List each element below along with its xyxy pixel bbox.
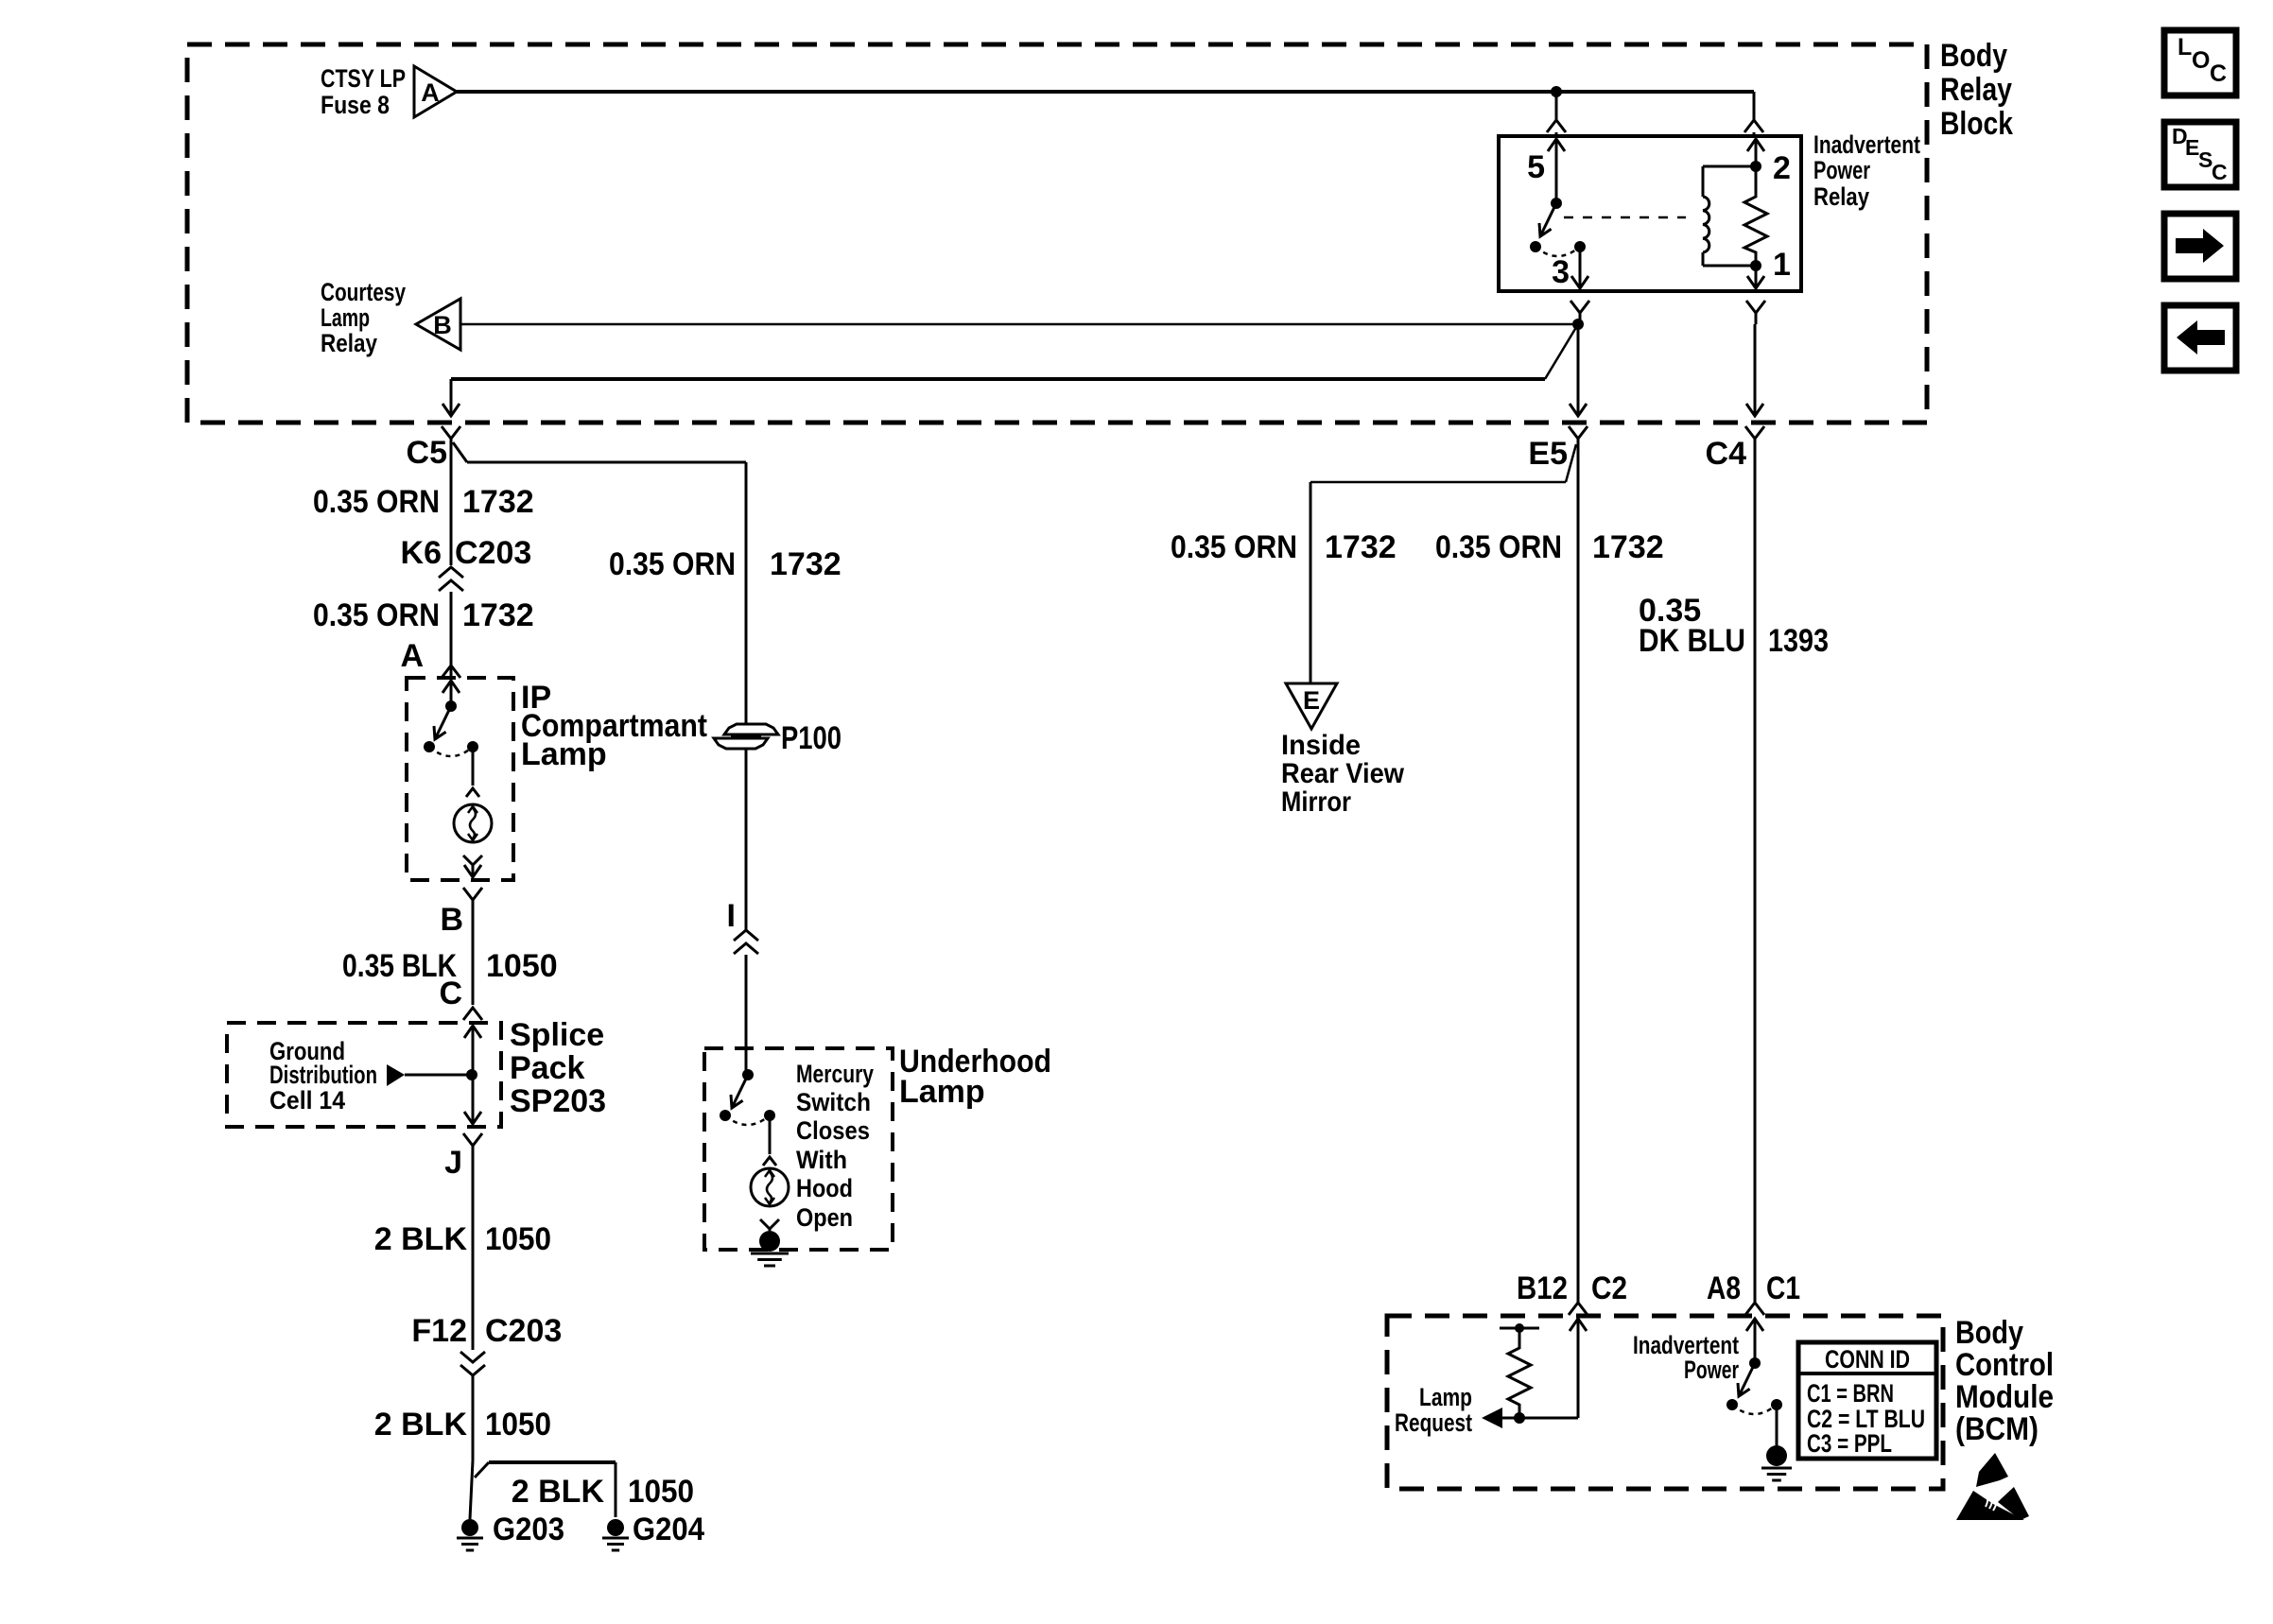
label 0.35 ORN 1732 (underhood) [609, 546, 842, 582]
svg-text:G203: G203 [493, 1512, 564, 1547]
svg-text:1732: 1732 [462, 597, 534, 633]
svg-text:K6: K6 [401, 535, 442, 571]
svg-text:Body: Body [1955, 1315, 2023, 1351]
Body Control Module dashed box [1387, 1316, 1943, 1489]
IP lamp switch throw arc dashed [429, 747, 473, 756]
label Mercury Switch Closes With Hood Open [796, 1060, 874, 1232]
relay pin 3 terminal [1552, 247, 1588, 290]
svg-text:F12: F12 [411, 1313, 467, 1349]
IP Compartment Lamp dashed box [407, 678, 513, 880]
svg-text:Mercury: Mercury [796, 1060, 874, 1088]
svg-text:2 BLK: 2 BLK [374, 1407, 468, 1443]
svg-text:DK BLU: DK BLU [1639, 623, 1745, 659]
junction below relay pin 3 [1572, 319, 1584, 330]
label 0.35 ORN 1732 (C5) [313, 484, 534, 520]
IP lamp bulb lower caret [463, 855, 482, 877]
svg-text:Hood: Hood [796, 1174, 853, 1202]
splice pack exit arrow [464, 1075, 481, 1124]
svg-text:Block: Block [1940, 106, 2013, 142]
IP lamp wire to bulb [466, 747, 479, 797]
svg-text:Open: Open [796, 1203, 853, 1232]
BCM switch contacts [1726, 1399, 1782, 1410]
svg-text:B12: B12 [1517, 1270, 1568, 1306]
svg-text:Lamp: Lamp [521, 736, 607, 772]
label G204 [633, 1512, 704, 1547]
svg-text:Request: Request [1395, 1408, 1472, 1437]
label Lamp Request [1395, 1383, 1472, 1437]
label Body Control Module (BCM) [1955, 1315, 2054, 1447]
svg-text:Control: Control [1955, 1347, 2054, 1383]
underhood switch contacts [720, 1110, 775, 1121]
svg-text:B: B [433, 311, 452, 339]
splice pack entry arrow [464, 1026, 481, 1075]
svg-text:C203: C203 [455, 535, 531, 571]
label Inadvertent Power Relay [1813, 130, 1920, 211]
branch slant at C5 to underhood feed [453, 442, 467, 462]
svg-text:I: I [727, 898, 736, 934]
svg-text:1: 1 [1773, 247, 1791, 283]
wire from fuse A to relay (net CTSY) [457, 90, 1754, 94]
Body Relay Block dashed border [187, 44, 1927, 423]
svg-text:1050: 1050 [485, 1221, 551, 1257]
connector C5 crossing [407, 426, 460, 565]
svg-text:O: O [2192, 47, 2210, 74]
Underhood Lamp dashed box [704, 1048, 893, 1250]
wire junction to pin 5 with caret [1547, 92, 1566, 136]
underhood mercury switch pivot [742, 1069, 754, 1080]
Splice Pack dashed box [227, 1023, 501, 1127]
label 2 BLK 1050 (grounds) [512, 1474, 694, 1510]
wire drop to C5 with arrow [442, 379, 460, 416]
mirror feed wire [1310, 482, 1566, 683]
svg-text:L: L [2178, 34, 2192, 60]
lamp feed bus wire y401 [451, 377, 1545, 381]
label I [727, 898, 736, 934]
BCM switch arm [1738, 1363, 1755, 1396]
wire junction to E5 with arrow [1570, 324, 1587, 416]
splice junction SP203 [466, 1069, 477, 1080]
label F12 C203 [411, 1313, 562, 1349]
label Ground Distribution Cell 14 [269, 1037, 377, 1114]
label Courtesy Lamp Relay [321, 278, 406, 357]
underhood switch throw arc dashed [725, 1115, 770, 1125]
label 0.35 DK BLU 1393 [1639, 593, 1829, 659]
junction above relay pin 5 [1551, 86, 1562, 97]
svg-text:0.35 ORN: 0.35 ORN [1435, 529, 1562, 565]
svg-text:B: B [440, 902, 463, 938]
ground G203 [457, 1519, 483, 1550]
svg-text:A8: A8 [1707, 1270, 1741, 1306]
BCM pin B12 arrow [1570, 1319, 1587, 1418]
ESD warning symbol [1956, 1453, 2029, 1520]
svg-text:Rear View: Rear View [1281, 758, 1405, 789]
relay pin 1 [1747, 247, 1791, 288]
IP compartment lamp bulb [454, 804, 492, 842]
svg-text:Relay: Relay [1813, 182, 1869, 211]
BCM pin A8 arrow [1746, 1319, 1763, 1363]
label Inside Rear View Mirror [1281, 730, 1405, 818]
svg-text:Lamp: Lamp [1419, 1383, 1472, 1411]
svg-text:C: C [439, 976, 462, 1011]
svg-text:1732: 1732 [1592, 529, 1664, 565]
svg-text:C5: C5 [407, 435, 447, 471]
inside rear view mirror triangle E [1286, 683, 1337, 729]
label IP Compartmant Lamp [521, 680, 707, 772]
svg-text:Closes: Closes [796, 1116, 870, 1145]
svg-text:1732: 1732 [1325, 529, 1397, 565]
connector C4 crossing [1745, 426, 1764, 1303]
svg-text:Fuse 8: Fuse 8 [321, 91, 390, 119]
label G203 [493, 1512, 564, 1547]
ground branch to G204 [475, 1462, 616, 1517]
label CTSY LP Fuse 8 [321, 64, 406, 119]
connector A caret [442, 665, 460, 678]
underhood lamp bulb [751, 1168, 789, 1206]
label 0.35 ORN 1732 (mirror) [1171, 529, 1397, 565]
connector B12 caret [1569, 1303, 1588, 1315]
IP lamp entry arrow [442, 681, 460, 706]
fuse feed triangle A [414, 66, 457, 117]
underhood feed wire horizontal y489 [467, 462, 746, 724]
svg-text:Power: Power [1684, 1356, 1739, 1384]
IP lamp switch arm [434, 706, 451, 739]
svg-text:2: 2 [1773, 150, 1791, 186]
in-line connector C203 (F12) [460, 1352, 485, 1460]
svg-text:With: With [796, 1146, 847, 1174]
svg-text:2 BLK: 2 BLK [374, 1221, 468, 1257]
svg-text:2 BLK: 2 BLK [512, 1474, 605, 1510]
svg-text:CONN ID: CONN ID [1825, 1345, 1910, 1373]
svg-text:A: A [421, 78, 440, 107]
connector C caret [463, 1008, 482, 1020]
label C [439, 976, 462, 1011]
in-line connector P100 [714, 724, 778, 749]
CONN ID table [1798, 1342, 1936, 1459]
svg-text:Inadvertent: Inadvertent [1813, 130, 1920, 159]
BCM inadvertent power switch pivot [1749, 1357, 1761, 1369]
label E5 [1528, 436, 1568, 472]
underhood wire to bulb [763, 1115, 776, 1166]
relay pin 1 caret below box [1746, 301, 1765, 324]
svg-text:1050: 1050 [486, 948, 558, 984]
svg-text:0.35 ORN: 0.35 ORN [313, 597, 440, 633]
relay switch arm [1539, 203, 1556, 236]
relay coil [1703, 166, 1756, 266]
label 0.35 BLK 1050 [342, 948, 558, 984]
svg-text:C1 = BRN: C1 = BRN [1807, 1379, 1894, 1408]
svg-text:1393: 1393 [1768, 623, 1829, 659]
svg-text:E: E [1303, 686, 1320, 715]
lamp request arrow [1482, 1408, 1578, 1428]
label Underhood Lamp [899, 1044, 1051, 1110]
relay coil suppression resistor [1744, 166, 1767, 266]
label B [440, 902, 463, 938]
wire relay pin3 to courtesy lamp relay B [460, 323, 1578, 326]
relay pin 3 caret below box [1570, 301, 1589, 324]
relay switch throw arc dashed [1536, 247, 1580, 256]
icon LOC [2164, 30, 2236, 95]
in-line connector C203 (K6) [439, 567, 463, 678]
wire P100 to underhood lamp [745, 749, 748, 930]
svg-text:Module: Module [1955, 1379, 2054, 1415]
svg-text:1050: 1050 [485, 1407, 551, 1443]
svg-text:C203: C203 [485, 1313, 562, 1349]
svg-text:(BCM): (BCM) [1955, 1411, 2039, 1447]
label 2 BLK 1050 (F12) [374, 1407, 551, 1443]
svg-text:Power: Power [1813, 156, 1870, 184]
slant from junction to lamp feed bus [1545, 324, 1578, 379]
wire C4 to BCM [1746, 324, 1763, 416]
label K6 C203 [401, 535, 532, 571]
BCM internal ground [1761, 1405, 1792, 1480]
svg-text:Relay: Relay [321, 329, 377, 357]
label C4 [1706, 436, 1747, 472]
relay actuation dashed link [1564, 216, 1686, 219]
svg-text:E5: E5 [1528, 436, 1568, 472]
svg-text:Inside: Inside [1281, 730, 1361, 761]
ground distribution feed triangle [387, 1064, 470, 1086]
svg-text:1732: 1732 [770, 546, 842, 582]
label Body Relay Block [1940, 38, 2013, 142]
wire corner to pin 2 with caret [1744, 92, 1763, 136]
label A8 C1 [1707, 1270, 1800, 1306]
svg-text:J: J [444, 1145, 462, 1181]
connector A8 caret [1745, 1303, 1764, 1315]
IP lamp switch pivot [445, 700, 457, 712]
svg-text:Body: Body [1940, 38, 2007, 74]
svg-text:A: A [400, 638, 424, 674]
svg-text:C1: C1 [1766, 1270, 1800, 1306]
relay pin 2 [1747, 139, 1791, 186]
svg-text:0.35 ORN: 0.35 ORN [609, 546, 736, 582]
icon arrow back [2164, 305, 2236, 371]
svg-text:C: C [2212, 160, 2228, 184]
ground G204 [602, 1519, 629, 1550]
connector E5 crossing [1569, 426, 1588, 1303]
Inadvertent Power Relay box [1499, 136, 1801, 291]
label B12 C2 [1517, 1270, 1627, 1306]
label A [400, 638, 424, 674]
BCM lamp request resistor [1500, 1323, 1539, 1424]
underhood switch arm [731, 1075, 748, 1108]
label Splice Pack SP203 [510, 1017, 606, 1119]
svg-text:P100: P100 [781, 720, 842, 756]
courtesy lamp relay triangle B [416, 299, 460, 350]
svg-text:0.35 ORN: 0.35 ORN [313, 484, 440, 520]
svg-text:Cell 14: Cell 14 [269, 1086, 345, 1114]
svg-text:Lamp: Lamp [321, 303, 370, 332]
svg-text:Courtesy: Courtesy [321, 278, 406, 306]
svg-text:C2: C2 [1591, 1270, 1627, 1306]
svg-text:Relay: Relay [1940, 72, 2012, 108]
label 2 BLK 1050 (J) [374, 1221, 551, 1257]
svg-text:C3 = PPL: C3 = PPL [1807, 1429, 1892, 1458]
IP lamp switch contacts [424, 741, 478, 752]
svg-text:3: 3 [1552, 254, 1570, 290]
svg-text:Distribution: Distribution [269, 1061, 377, 1089]
svg-text:CTSY LP: CTSY LP [321, 64, 406, 93]
underhood bulb lower caret [760, 1219, 779, 1230]
svg-text:Pack: Pack [510, 1050, 584, 1086]
svg-text:Switch: Switch [796, 1088, 871, 1116]
svg-text:Splice: Splice [510, 1017, 604, 1053]
icon arrow next [2164, 214, 2236, 279]
label P100 [781, 720, 842, 756]
label Inadvertent Power (BCM) [1633, 1331, 1739, 1384]
svg-text:Lamp: Lamp [899, 1074, 985, 1110]
icon DESC [2164, 122, 2236, 187]
slant from E5 to mirror feed [1566, 444, 1576, 482]
label 0.35 ORN 1732 (K6) [313, 597, 534, 633]
svg-text:C: C [2210, 60, 2227, 87]
svg-text:G204: G204 [633, 1512, 704, 1547]
BCM switch throw arc dashed [1732, 1405, 1777, 1414]
svg-text:0.35 ORN: 0.35 ORN [1171, 529, 1297, 565]
svg-text:1050: 1050 [628, 1474, 694, 1510]
underhood lamp ground [751, 1229, 789, 1266]
label 0.35 ORN 1732 (E5) [1435, 529, 1664, 565]
wire to ground G203 [470, 1460, 473, 1519]
svg-text:SP203: SP203 [510, 1083, 606, 1119]
connector J crossing [463, 1133, 482, 1350]
relay pin 5 terminal [1527, 139, 1565, 203]
relay switch contacts [1530, 241, 1586, 252]
relay switch pivot [1551, 198, 1562, 209]
svg-text:C4: C4 [1706, 436, 1747, 472]
label J [444, 1145, 462, 1181]
svg-text:Mirror: Mirror [1281, 786, 1351, 818]
svg-text:5: 5 [1527, 149, 1545, 185]
svg-text:1732: 1732 [462, 484, 534, 520]
in-line connector I [734, 930, 758, 1075]
connector B crossing [463, 888, 482, 1005]
